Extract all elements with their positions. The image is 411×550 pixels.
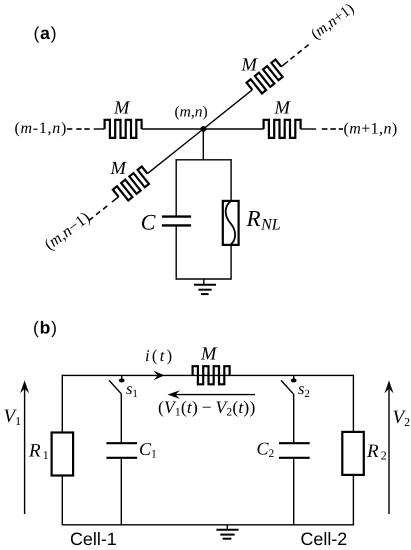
voltage difference arrow bbox=[168, 390, 256, 399]
svg-text:M: M bbox=[113, 99, 131, 119]
svg-text:(m,n): (m,n) bbox=[175, 104, 208, 121]
wire: C1 to bottom bus bbox=[120, 459, 122, 526]
svg-text:(m,n−1): (m,n−1) bbox=[41, 208, 93, 253]
svg-text:i(t): i(t) bbox=[145, 346, 174, 365]
capacitor C bbox=[162, 217, 191, 226]
svg-text:V2: V2 bbox=[393, 407, 411, 429]
svg-text:R2: R2 bbox=[366, 441, 387, 462]
wire: loop right upper bbox=[230, 159, 232, 200]
wire: dashed lower-left lead bbox=[89, 206, 107, 221]
wire: dashed left lead bbox=[67, 128, 90, 130]
switch s2 contact dot bbox=[291, 375, 297, 382]
ground (panel b) bbox=[216, 525, 238, 539]
svg-text:(m,n+1): (m,n+1) bbox=[308, 0, 358, 43]
wire: right stub after inductor bbox=[301, 128, 317, 130]
voltage arrow V1 bbox=[20, 380, 29, 514]
wire: loop left lower bbox=[175, 227, 177, 280]
inductor M lower-left diagonal bbox=[113, 167, 153, 204]
wire: stub after lower-left inductor bbox=[112, 197, 119, 202]
wire: diagonal node to upper-right inductor bbox=[203, 90, 252, 129]
wire: node down to loop bbox=[202, 129, 204, 161]
svg-text:C1: C1 bbox=[139, 439, 157, 461]
capacitor C2 bbox=[279, 443, 310, 458]
svg-text:C2: C2 bbox=[257, 438, 275, 460]
resistor RNL S-curve bbox=[226, 201, 235, 245]
ground (panel a) bbox=[194, 279, 216, 294]
wire: dashed upper-right lead bbox=[290, 45, 308, 60]
svg-text:(m+1,n): (m+1,n) bbox=[344, 121, 398, 138]
wire: bottom bus bbox=[62, 524, 353, 526]
wire: C2 to bottom bus bbox=[293, 459, 295, 526]
resistor R2 box bbox=[342, 432, 364, 475]
wire: switch s1 branch bbox=[120, 394, 122, 443]
wire: left vertical lower bbox=[61, 476, 63, 526]
voltage arrow V2 bbox=[385, 380, 394, 514]
wire: switch s2 branch bbox=[293, 394, 295, 443]
inductor M right horizontal bbox=[264, 120, 301, 138]
svg-text:V1: V1 bbox=[4, 406, 22, 428]
svg-text:M: M bbox=[274, 99, 292, 119]
svg-text:s2: s2 bbox=[298, 379, 310, 400]
switch s1 blade bbox=[109, 380, 121, 394]
wire: top bus bbox=[62, 374, 353, 376]
svg-text:Cell-1: Cell-1 bbox=[70, 529, 117, 549]
wire: right vertical upper bbox=[352, 375, 354, 432]
svg-text:(m-1,n): (m-1,n) bbox=[15, 120, 67, 137]
resistor RNL box bbox=[223, 201, 239, 245]
inductor M upper-right diagonal bbox=[247, 60, 287, 97]
svg-text:(b): (b) bbox=[33, 318, 58, 338]
switch s2 blade bbox=[281, 380, 293, 394]
switch s1 contact dot bbox=[119, 375, 125, 382]
wire: left vertical upper bbox=[61, 375, 63, 433]
inductor M left horizontal bbox=[105, 120, 142, 138]
capacitor C1 bbox=[106, 443, 137, 458]
current arrow i(t) bbox=[153, 371, 164, 381]
svg-text:s1: s1 bbox=[126, 379, 138, 400]
wire: stub after upper-right inductor bbox=[281, 61, 288, 66]
svg-text:C: C bbox=[141, 209, 156, 234]
wire: loop right lower bbox=[230, 246, 232, 280]
wire: dashed right lead bbox=[322, 128, 343, 130]
node (m,n) junction dot bbox=[200, 126, 206, 132]
wire: loop left upper bbox=[175, 159, 177, 215]
svg-text:M: M bbox=[241, 56, 259, 76]
svg-text:(a): (a) bbox=[34, 23, 58, 43]
svg-text:RNL: RNL bbox=[246, 206, 281, 234]
resistor R1 box bbox=[52, 433, 74, 476]
svg-text:M: M bbox=[110, 159, 128, 179]
inductor M (panel b) bbox=[193, 366, 230, 384]
wire: right vertical lower bbox=[352, 475, 354, 526]
svg-text:R1: R1 bbox=[28, 441, 49, 462]
wire: left inductor to node bbox=[142, 128, 204, 130]
svg-text:M: M bbox=[200, 344, 218, 364]
wire: loop bottom bar bbox=[176, 278, 231, 280]
svg-text:(V1(t) − V2(t)): (V1(t) − V2(t)) bbox=[158, 397, 255, 419]
svg-text:Cell-2: Cell-2 bbox=[301, 529, 348, 549]
wire: left lead solid bbox=[94, 128, 105, 130]
wire: diagonal node to lower-left inductor bbox=[148, 129, 204, 174]
wire: node to right inductor bbox=[203, 128, 263, 130]
wire: loop top bar bbox=[176, 159, 231, 161]
